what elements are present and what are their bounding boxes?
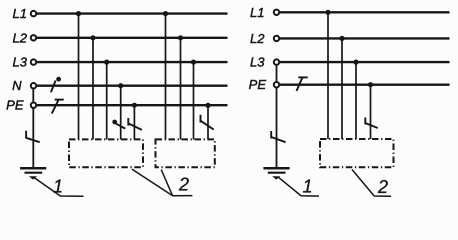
- svg-text:L1: L1: [13, 6, 27, 21]
- svg-text:L2: L2: [13, 30, 28, 45]
- svg-text:2: 2: [178, 174, 189, 194]
- wire PE drop to box 2 (left): [207, 105, 209, 139]
- wire L2 drop to box 2 (left): [180, 38, 182, 140]
- svg-text:L1: L1: [250, 5, 264, 20]
- bus wire L1 (left): [37, 12, 228, 14]
- svg-text:1: 1: [53, 177, 63, 197]
- bus wire PE (left): [37, 104, 228, 106]
- terminal circle L3 (left): [31, 59, 36, 64]
- protective conductor mark on bus PE (right): [297, 77, 308, 91]
- protective conductor mark on earthing wire (left): [26, 131, 40, 143]
- wire L3 drop to box 2 (left): [193, 62, 195, 139]
- junction dot L3 tap 2 (left): [191, 60, 196, 65]
- junction dot L3 tap 1 (left): [104, 60, 109, 65]
- junction dot N tap 1 (left): [118, 83, 123, 88]
- svg-text:L2: L2: [250, 31, 265, 46]
- bus wire L1 (right): [280, 11, 450, 13]
- leader line to label 1 (left): [34, 178, 84, 197]
- wire L1 drop to box 1 (left): [78, 14, 80, 140]
- junction dot L2 tap 1 (left): [90, 35, 95, 40]
- wire L2 drop to box 1 (left): [92, 38, 94, 140]
- terminal circle L2 (left): [31, 35, 36, 40]
- svg-text:PE: PE: [6, 98, 24, 113]
- leader line from box 2 to label 2 (left): [161, 170, 192, 196]
- wire PE drop to box 1 (left): [133, 105, 135, 139]
- junction dot L1 tap 1 (left): [76, 11, 81, 16]
- svg-text:PE: PE: [249, 77, 267, 92]
- bus wire L3 (right): [280, 61, 450, 63]
- wire L3 drop to box (right): [355, 62, 357, 139]
- wire L1 drop to box (right): [327, 12, 329, 139]
- terminal circle N (left): [31, 83, 36, 88]
- wire L1 drop to box 2 (left): [165, 14, 167, 140]
- wire PE drop to box (right): [370, 85, 372, 139]
- junction dot L1 tap (right): [325, 10, 330, 15]
- bus wire L2 (left): [37, 37, 228, 39]
- earth electrode symbol (left): [20, 168, 46, 179]
- junction dot L1 tap 2 (left): [163, 11, 168, 16]
- svg-text:L3: L3: [13, 55, 28, 70]
- terminal circle L2 (right): [274, 36, 279, 41]
- terminal circle L3 (right): [274, 59, 279, 64]
- junction dot L3 tap (right): [353, 60, 358, 65]
- earth electrode symbol (right): [263, 168, 289, 179]
- neutral conductor mark on N drop (left box 1): [112, 120, 125, 129]
- bus wire PE (right): [280, 83, 450, 85]
- junction dot PE tap (right): [368, 82, 373, 87]
- bus wire L2 (right): [280, 37, 450, 39]
- load box 2 (left, second): [156, 139, 215, 167]
- leader line from box to label 2 (right): [352, 170, 391, 197]
- protective conductor mark on PE drop (right box): [365, 118, 377, 129]
- bus wire L3 (left): [37, 61, 228, 63]
- protective conductor mark on bus PE (left): [52, 100, 64, 114]
- protective conductor mark on earthing wire (right): [271, 131, 285, 142]
- load box 2 (right): [320, 139, 394, 167]
- wire L2 drop to box (right): [341, 38, 343, 139]
- wire L3 drop to box 1 (left): [106, 62, 108, 139]
- junction dot PE tap 2 (left): [205, 103, 210, 108]
- terminal circle PE (left): [31, 103, 36, 108]
- wire L3-to-PE-to-earth (right): [276, 65, 278, 167]
- junction dot L2 tap 2 (left): [178, 35, 183, 40]
- wire N-to-PE-to-earth (left): [32, 89, 34, 168]
- svg-text:L3: L3: [250, 55, 265, 70]
- junction dot L2 tap (right): [339, 36, 344, 41]
- wire N drop to box 1 (left): [120, 86, 122, 140]
- junction dot PE tap 1 (left): [132, 103, 137, 108]
- neutral conductor mark on bus N (left): [51, 77, 61, 93]
- bus wire N (left): [37, 84, 228, 86]
- terminal circle PE (right): [274, 82, 279, 87]
- protective conductor mark on PE drop (left box 2): [201, 115, 214, 130]
- svg-text:1: 1: [303, 177, 313, 197]
- protective conductor mark on PE drop (left box 1): [128, 118, 142, 130]
- load box 2 (left, first): [69, 139, 143, 167]
- terminal circle L1 (right): [274, 10, 279, 15]
- leader line from box 1 to label 2 (left): [132, 169, 173, 196]
- terminal circle L1 (left): [31, 11, 36, 16]
- svg-text:2: 2: [377, 177, 388, 197]
- svg-text:N: N: [12, 78, 22, 93]
- leader line to label 1 (right): [278, 177, 319, 196]
